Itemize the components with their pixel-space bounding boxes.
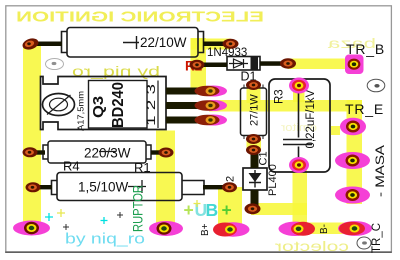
pad: bottom B+ [213, 222, 250, 236]
pad: +UB left top [21, 37, 40, 52]
diode D1 symbol [234, 59, 244, 68]
svg-text:ELECTRONIC IGNITION: ELECTRONIC IGNITION [16, 10, 264, 26]
svg-text:TR_B: TR_B [346, 41, 385, 57]
pad: D2 top lead [246, 145, 261, 155]
wire trace: capacitor bottom pad down to pad B- [293, 165, 308, 229]
hole marker top-right [367, 79, 385, 92]
pad: Q3 pin 1 [195, 86, 228, 97]
pad: TR_B terminal [345, 55, 364, 75]
svg-text:A17,5mm: A17,5mm [77, 91, 86, 131]
svg-text:colector: colector [275, 238, 349, 254]
svg-text:Q3: Q3 [90, 96, 107, 118]
wire trace: collector band from Q3 pin2 to right column [209, 100, 362, 112]
svg-text:1N4933: 1N4933 [207, 47, 247, 59]
pad: 220/3W left lead [23, 147, 38, 157]
svg-text:BD240: BD240 [110, 82, 127, 128]
pad: TR_E terminal [340, 118, 366, 136]
pin divider line [157, 81, 159, 129]
wire: D1 cathode lead to TR_B pad [260, 61, 285, 66]
pad: capacitor C1 bottom [289, 157, 309, 173]
wire trace: vertical from 22/10W right lead down to Q3 pin1 [191, 38, 207, 92]
pad: 22/10W right lead [223, 39, 239, 49]
wire trace: TR_B horizontal trace [288, 59, 354, 70]
resistor R1 1,5/10W body [52, 173, 205, 201]
pad: bottom TR_C [338, 221, 372, 236]
svg-text:- MASA: - MASA [375, 145, 387, 197]
svg-text:R3: R3 [274, 89, 286, 104]
wire: Q3 pin 1 lead [166, 88, 199, 95]
diode D2 PL400 body [243, 168, 267, 190]
svg-text:C1: C1 [258, 151, 270, 165]
hole marker top-left [46, 59, 64, 70]
wire trace: central rail from Q3 bottom to bottom pad P2 [156, 131, 175, 232]
pad: bottom-left +UB [13, 221, 50, 236]
svg-text:RUPTOR: RUPTOR [131, 185, 146, 232]
pad: 27/1W top lead [246, 80, 261, 90]
wire: 1,5/10W left lead [36, 185, 52, 189]
wire trace: right column from TR_E pad down to MASA pads [347, 100, 363, 204]
wire: Q3 pin 3 lead [166, 117, 199, 124]
transistor Q3 inner body rect [89, 81, 148, 129]
capacitor C1 box [269, 79, 330, 172]
wire trace: stub capacitor top pad to collector band [293, 90, 305, 102]
svg-text:R4: R4 [63, 159, 80, 174]
pad: D1 cathode / TR_B trace start [280, 58, 296, 68]
svg-text:PL400: PL400 [267, 164, 279, 196]
value label 22/10W with lead tick [123, 36, 139, 49]
pad: 220/3W right lead [159, 148, 174, 158]
wire trace: D2 cathode link band [251, 203, 307, 215]
resistor R5 22/10W body [62, 28, 204, 58]
diode D2 symbol [249, 173, 262, 182]
wire: 220/3W left lead [34, 150, 45, 154]
pad: 27/1W bottom lead [246, 134, 261, 144]
svg-text:by niq_ro: by niq_ro [65, 231, 145, 248]
svg-text:27/1W: 27/1W [249, 94, 261, 126]
wire: D2 top lead [251, 151, 259, 168]
svg-text:TR_E: TR_E [345, 101, 384, 117]
svg-text:1,5/10W: 1,5/10W [78, 180, 129, 195]
wire: 220/3W right lead [151, 150, 163, 154]
diode D1 1N4933 body [227, 57, 260, 71]
resistor R3 27/1W body [241, 85, 267, 140]
pad: bottom B- [279, 222, 316, 236]
wire: 1,5/10W right lead [203, 185, 227, 189]
svg-text:B-: B- [319, 224, 330, 234]
pad: capacitor C1 top [289, 78, 309, 94]
wire trace: stub under 22/10W right lead pad [191, 39, 231, 50]
wire trace: stub left of TR_E pad [331, 126, 340, 135]
capacitor C1 symbol [283, 90, 312, 161]
wire: Q3 pin 2 lead [166, 102, 199, 109]
svg-text:1 2 3: 1 2 3 [144, 84, 158, 126]
svg-text:B: B [206, 200, 219, 220]
pad: Q3 pin 2 [195, 100, 228, 111]
pad: bottom P2 ruptor [149, 221, 183, 236]
svg-text:+: + [222, 200, 232, 220]
hole marker bottom-right [357, 237, 371, 249]
wire trace: stub between 27/1W bottom pad and D2 top pad [247, 138, 262, 151]
pad: Q3 pin 3 [195, 115, 228, 126]
transistor Q3 BD240 package outline [41, 77, 167, 130]
pad: 1,5/10W right lead [222, 182, 237, 192]
wire trace: bottom link pad B- to pad TR_C [300, 223, 354, 235]
wire: pad to 22/10W left lead [32, 42, 62, 47]
pad: D1 anode [190, 60, 205, 70]
resistor R4 220/3W body [43, 141, 151, 163]
wire trace: left +UB rail (top pad to bottom-left pad) [23, 44, 41, 230]
wire: 22/10W right lead to pad [203, 42, 229, 47]
pad: MASA bottom [335, 187, 370, 204]
sparkle marks [45, 213, 108, 224]
wire trace: B+ column from 1,5/10W right pad down to pad B+ [218, 187, 242, 230]
svg-text:220/3W: 220/3W [84, 146, 131, 161]
pad: MASA middle [335, 152, 370, 169]
transistor Q3 mounting hole [43, 94, 75, 116]
diode D1 cathode band [251, 57, 259, 70]
wire trace: stub 27/1W top pad to collector band [247, 85, 261, 103]
svg-text:B+: B+ [200, 223, 211, 236]
svg-text:TR_C: TR_C [371, 223, 383, 253]
svg-text:0,22uF/1kV: 0,22uF/1kV [305, 89, 317, 148]
wire: D2 bottom lead [251, 190, 259, 206]
pad: 1,5/10W left lead [26, 182, 41, 192]
pad: D2 bottom lead [245, 203, 261, 214]
svg-text:+: + [184, 200, 194, 220]
svg-text:22/10W: 22/10W [140, 35, 187, 50]
wire: D1 anode lead [198, 63, 227, 68]
